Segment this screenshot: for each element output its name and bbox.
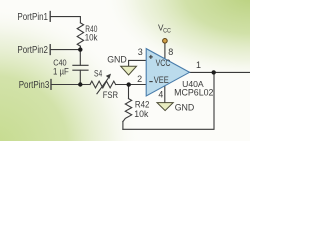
svg-text:2: 2 [137,74,142,84]
svg-text:CC: CC [163,28,171,34]
wire node C to R42 top [128,85,130,99]
svg-text:VEE: VEE [154,75,169,85]
wire feedback bottom and right side [123,72,214,129]
svg-text:1 µF: 1 µF [53,66,69,76]
wire C40 bottom to node B [79,70,81,84]
svg-text:10k: 10k [85,32,98,43]
junction node B [78,82,82,86]
op-amp plus sign [149,55,153,59]
svg-text:PortPin3: PortPin3 [19,80,50,91]
wire R40 bottom to node A [79,46,81,49]
svg-text:S4: S4 [94,68,102,78]
wire node A to C40 top [79,50,81,66]
capacitor C40 plates [73,64,88,66]
op-amp minus sign [149,81,152,83]
op-amp U40A triangle [146,49,189,96]
svg-text:8: 8 [168,47,173,57]
junction node A [78,47,82,51]
resistor S4 FSR zigzag [90,81,116,88]
node PortPin1 terminal bar [49,12,51,22]
svg-text:VCC: VCC [156,58,171,68]
node PortPin3 terminal bar [50,80,52,90]
resistor R42 [123,99,132,122]
junction node C [127,82,131,86]
wire FSR to op-amp pin 2 [116,84,147,86]
svg-text:PortPin1: PortPin1 [17,12,48,23]
svg-text:FSR: FSR [103,89,119,100]
node PortPin2 terminal bar [49,45,51,55]
svg-text:1: 1 [196,60,201,70]
arrow of FSR S4 [97,78,109,94]
svg-text:10k: 10k [134,108,148,119]
wire PortPin3 to FSR [51,84,90,86]
wire R42 bottom to feedback bottom [122,121,124,129]
svg-text:GND: GND [175,102,195,113]
wire PortPin1 to R40 top corner [50,17,80,23]
wire pin 4 to GND [164,86,166,103]
wire pin 3 to GND [129,60,147,66]
junction node output [212,70,216,74]
ground near pin 4 [157,103,173,111]
wire VCC to pin 8 [164,43,166,59]
VCC supply terminal [163,39,168,44]
svg-text:MCP6L02: MCP6L02 [174,88,213,98]
resistor R40 [77,23,83,46]
wire output pin 1 [190,71,251,73]
svg-text:4: 4 [158,90,163,100]
svg-text:PortPin2: PortPin2 [17,45,48,56]
ground near pin 3 [121,66,137,75]
wire PortPin2 to node A [50,49,80,51]
svg-text:GND: GND [107,53,127,64]
svg-text:3: 3 [138,47,143,57]
